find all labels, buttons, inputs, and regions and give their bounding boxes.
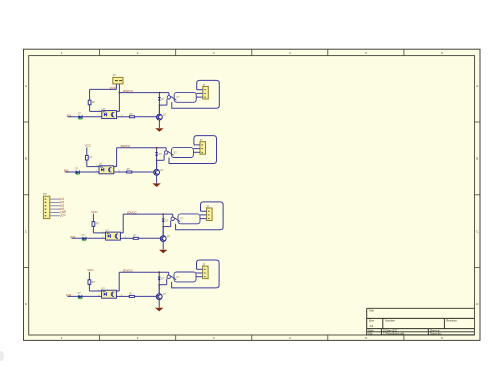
svg-text:Title: Title xyxy=(369,309,375,313)
wire connector pin1 xyxy=(197,268,203,270)
relay K1 switch arm xyxy=(171,96,177,100)
svg-text:U?: U? xyxy=(102,107,106,111)
wire opto pin4 up to JDVCC rail xyxy=(117,110,120,112)
wire JDVCC down through diode to collector xyxy=(158,272,160,294)
ground GND4 xyxy=(155,308,163,312)
wire input IN1 xyxy=(68,116,102,118)
svg-text:VCC: VCC xyxy=(85,144,92,148)
wire VCC vertical to resistor xyxy=(92,214,94,233)
junction diode/rail xyxy=(159,92,161,94)
wire relay outer loop xyxy=(176,202,224,230)
diode D3f flyback xyxy=(162,218,165,220)
relay K3 switch arm xyxy=(174,218,180,222)
LED D1 green xyxy=(78,116,83,120)
wire jumper pin2 down to JDVCC rail xyxy=(118,84,120,93)
resistor R3a xyxy=(92,222,95,227)
wire header pin3 xyxy=(50,205,60,207)
svg-text:JDVCC: JDVCC xyxy=(120,144,131,148)
wire JDVCC down through diode to collector xyxy=(162,214,164,236)
wire rail end to coil top xyxy=(168,272,170,275)
wire input IN2 xyxy=(65,171,99,173)
svg-text:B: B xyxy=(476,157,478,161)
LED D2 green xyxy=(75,171,80,175)
wire input IN3 xyxy=(71,237,105,239)
inner border xyxy=(29,56,475,335)
svg-text:U?: U? xyxy=(99,162,103,166)
svg-text:Revision: Revision xyxy=(446,319,457,323)
svg-text:P?: P? xyxy=(43,192,47,196)
LED D4 green xyxy=(78,296,83,300)
wire base resistor to transistor Q3 xyxy=(138,237,160,239)
relay K4 switch arm xyxy=(170,276,176,280)
ground GND2 xyxy=(152,183,160,187)
svg-text:Size: Size xyxy=(369,319,375,323)
wire relay inner loop xyxy=(171,148,193,158)
transistor Q1 xyxy=(157,114,163,120)
wire collector to relay coil xyxy=(163,226,171,228)
connector P1 6-pin header xyxy=(43,196,49,218)
wire VCC vertical to resistor xyxy=(88,272,90,291)
relay K3 coil xyxy=(171,217,174,220)
wire header pin4 xyxy=(50,208,60,210)
svg-text:VCC: VCC xyxy=(91,210,98,214)
wire resistor to opto pin1 xyxy=(89,290,101,292)
svg-text:U?: U? xyxy=(105,228,109,232)
wire connector pin1 xyxy=(197,89,203,91)
connector J3out 3-pin xyxy=(207,208,213,221)
wire VCC vertical to resistor xyxy=(89,89,91,111)
wire relay outer loop xyxy=(172,260,220,288)
junction diode/rail xyxy=(156,147,158,149)
schematic sheet xyxy=(24,49,481,340)
wire input IN4 xyxy=(67,295,101,297)
border zone ticks top/bottom xyxy=(99,49,101,55)
net JDVCC rail xyxy=(119,92,168,94)
LED D3 green xyxy=(82,238,87,242)
wire collector to relay coil xyxy=(159,284,167,286)
svg-text:U?: U? xyxy=(101,287,105,291)
wire header pin6 xyxy=(50,215,60,217)
svg-text:JDVCC: JDVCC xyxy=(127,211,138,215)
wire emitter down xyxy=(158,120,160,128)
junction coil tap xyxy=(158,284,160,286)
net JDVCC rail xyxy=(123,213,173,215)
relay K4 coil xyxy=(167,275,170,278)
diode D2f flyback xyxy=(155,152,158,154)
wire collector to relay coil xyxy=(159,104,167,106)
resistor R1a xyxy=(88,100,91,105)
junction diode/rail xyxy=(162,213,164,215)
junction JDVCC xyxy=(119,92,121,94)
junction coil tap xyxy=(156,160,158,162)
wire VCC vertical to resistor xyxy=(86,147,88,166)
junction diode/rail xyxy=(158,271,160,273)
svg-text:JDVCC: JDVCC xyxy=(123,89,134,93)
net JDVCC rail xyxy=(117,147,167,149)
resistor R2b xyxy=(127,171,132,173)
diode D1f flyback xyxy=(158,97,161,99)
transistor Q4 xyxy=(156,294,162,300)
svg-text:B: B xyxy=(25,157,27,161)
relay K1 coil xyxy=(167,96,170,99)
wire rail end to coil top xyxy=(165,148,167,151)
svg-text:Drawn By:: Drawn By: xyxy=(430,332,442,335)
wire JDVCC down through diode to collector xyxy=(158,93,160,115)
wire jumper pin1 down to VCC xyxy=(115,84,117,90)
wire opto pin3 to base resistor xyxy=(120,237,133,239)
svg-text:A4: A4 xyxy=(370,324,374,328)
op-amp U2 optocoupler xyxy=(99,166,114,174)
wire connector pin1 xyxy=(201,210,207,212)
resistor R4a xyxy=(88,280,91,285)
op-amp U1 optocoupler xyxy=(102,111,117,119)
wire collector up xyxy=(158,105,160,114)
svg-text:A: A xyxy=(25,84,27,88)
wire connector pin1 xyxy=(194,144,200,146)
connector J1out 3-pin xyxy=(203,87,209,100)
svg-text:Number: Number xyxy=(385,319,395,323)
wire resistor to opto pin1 xyxy=(90,110,102,112)
wire relay inner loop xyxy=(178,214,200,224)
wire relay inner loop xyxy=(174,92,196,102)
net JDVCC rail xyxy=(119,271,169,273)
wire relay outer loop xyxy=(169,136,217,164)
wire header pin5 xyxy=(50,212,60,214)
wire header pin1 xyxy=(50,198,60,200)
op-amp U3 optocoupler xyxy=(106,232,121,240)
diode D4f flyback xyxy=(158,276,161,278)
wire connector pin2 xyxy=(193,148,200,150)
wire collector up xyxy=(162,227,164,236)
wire rail end to coil top xyxy=(172,214,174,217)
ground GND3 xyxy=(159,250,167,254)
svg-text:VCC: VCC xyxy=(110,86,117,90)
wire connector pin3 xyxy=(193,151,200,153)
resistor R4b xyxy=(129,295,134,297)
wire base resistor to transistor Q1 xyxy=(135,116,157,118)
transistor Q3 xyxy=(160,236,166,242)
resistor R1b xyxy=(129,116,134,118)
wire opto pin4 up to JDVCC rail xyxy=(116,290,119,292)
wire connector pin3 xyxy=(196,96,203,98)
wire connector pin2 xyxy=(196,272,203,274)
wire collector to relay coil xyxy=(157,159,165,161)
connector J4out 3-pin xyxy=(203,266,209,279)
wire opto pin4 up to JDVCC rail xyxy=(120,232,123,234)
wire emitter down xyxy=(158,300,160,308)
wire header pin2 xyxy=(50,201,60,203)
wire base resistor to transistor Q4 xyxy=(134,295,156,297)
wire connector pin3 xyxy=(196,276,203,278)
transistor Q2 xyxy=(154,169,160,175)
wire resistor to opto pin1 xyxy=(93,232,105,234)
wire base resistor to transistor Q2 xyxy=(132,171,154,173)
wire emitter down xyxy=(162,242,164,250)
relay K2 switch arm xyxy=(168,151,174,155)
wire VCC horizontal to jumper J1 xyxy=(90,88,117,90)
svg-text:JDVCC: JDVCC xyxy=(123,269,134,273)
junction coil tap xyxy=(159,104,161,106)
wire connector pin2 xyxy=(200,214,207,216)
wire collector up xyxy=(158,285,160,294)
sheet shadow smudge xyxy=(0,351,4,361)
svg-text:A: A xyxy=(476,84,478,88)
title block text xyxy=(368,309,457,336)
op-amp U4 optocoupler xyxy=(102,290,117,298)
svg-text:C:\RelayBoard.ddb: C:\RelayBoard.ddb xyxy=(383,332,405,335)
ground GND1 xyxy=(155,128,163,132)
connector J2out 3-pin xyxy=(200,142,206,155)
wire opto pin3 to base resistor xyxy=(117,116,130,118)
wire opto pin3 to base resistor xyxy=(114,171,127,173)
border zone ticks left/right xyxy=(24,121,29,123)
svg-text:File:: File: xyxy=(368,332,373,335)
jumper J1 xyxy=(113,77,123,84)
wire emitter down xyxy=(156,175,158,183)
wire opto pin3 to base resistor xyxy=(116,295,129,297)
svg-text:VCC: VCC xyxy=(87,268,94,272)
wire collector up xyxy=(156,160,158,169)
junction coil tap xyxy=(162,226,164,228)
wire relay inner loop xyxy=(174,272,196,282)
wire connector pin2 xyxy=(196,92,203,94)
wire opto pin4 up to JDVCC rail xyxy=(114,166,117,168)
wire relay outer loop xyxy=(172,80,220,108)
resistor R3b xyxy=(133,237,138,239)
wire JDVCC down through diode to collector xyxy=(156,148,158,170)
title block xyxy=(367,308,475,335)
resistor R2a xyxy=(85,155,88,160)
relay K2 coil xyxy=(164,151,167,154)
wire resistor to opto pin1 xyxy=(87,166,99,168)
wire connector pin3 xyxy=(200,218,207,220)
wire rail end to coil top xyxy=(168,93,170,96)
